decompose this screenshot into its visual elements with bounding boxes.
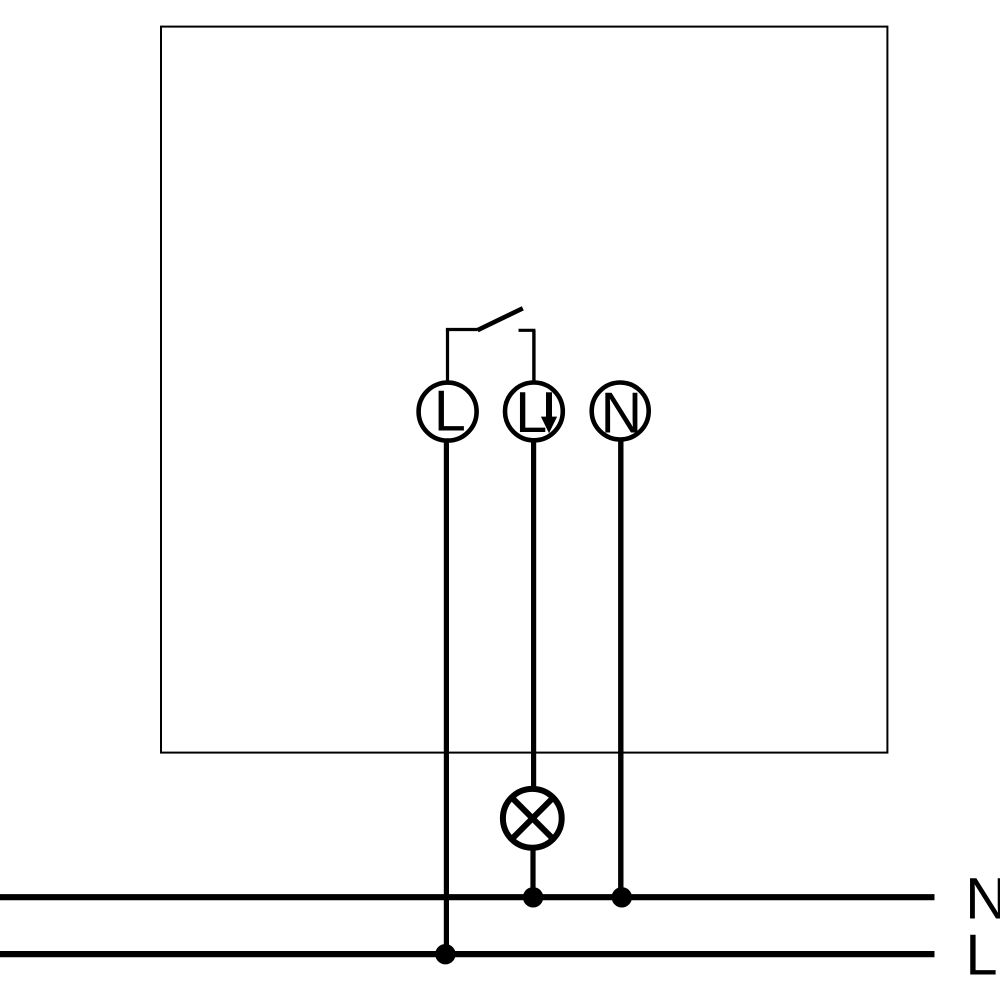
wire: switched terminal down to lamp: [531, 440, 536, 792]
junction: N terminal to N bus: [612, 887, 632, 907]
svg-text:L: L: [434, 380, 466, 444]
junction: lamp to N bus: [523, 887, 543, 907]
terminal L-switched (circle): [505, 383, 563, 441]
wire: L bus line: [0, 951, 935, 957]
terminal L (circle): [419, 383, 477, 441]
lamp E1 (circle with cross): [503, 789, 562, 848]
wire: switch left horizontal: [446, 328, 478, 331]
wire: switch right contact tick: [519, 329, 536, 332]
terminal N (circle): [592, 383, 649, 440]
svg-text:N: N: [601, 381, 642, 445]
wire: N terminal down to N bus: [618, 439, 623, 898]
svg-text:L: L: [515, 381, 547, 445]
wire: N bus line: [0, 894, 935, 900]
wire: L terminal down to L bus: [444, 440, 449, 954]
junction: L terminal to L bus: [435, 944, 455, 964]
switch S1 blade (open): [478, 308, 523, 330]
wire: lamp down to N bus: [530, 845, 535, 897]
svg-text:N: N: [965, 866, 1000, 931]
svg-text:L: L: [966, 923, 998, 987]
arrow (down) inside switched terminal: [546, 392, 552, 418]
wire: L terminal top vertical to switch: [446, 330, 449, 383]
device outline rectangle: [161, 27, 887, 753]
wire: right vertical down to arrow terminal: [532, 330, 535, 382]
